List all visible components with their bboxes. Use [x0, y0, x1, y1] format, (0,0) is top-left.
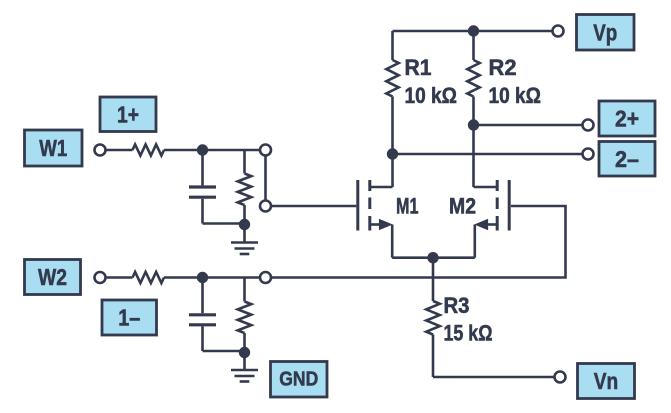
capacitor W2 RC: [189, 278, 216, 352]
label R2 value: [489, 55, 542, 108]
transistor M2: [474, 180, 510, 258]
node label W1: [25, 130, 83, 166]
junction tail: [427, 252, 438, 263]
terminal W1: [95, 145, 106, 156]
wire node 2-: [393, 153, 589, 156]
svg-text:2–: 2–: [615, 146, 639, 172]
svg-text:W2: W2: [38, 264, 67, 290]
junction W2 RC: [197, 272, 208, 283]
node label 2-: [599, 142, 655, 177]
capacitor W1 RC: [189, 150, 216, 224]
svg-text:R2: R2: [489, 55, 517, 80]
terminal Vp: [553, 26, 564, 37]
label R3 value: [444, 293, 493, 345]
terminal 2+: [583, 120, 594, 131]
wire W1 to 1+: [164, 149, 266, 152]
label R1 value: [405, 55, 458, 108]
wire top rail Vp: [393, 30, 559, 33]
svg-text:W1: W1: [39, 135, 67, 161]
terminal 1+: [260, 145, 271, 156]
node label 2+: [599, 101, 655, 136]
junction W1 RC ground: [239, 219, 250, 230]
node label Vn: [578, 364, 635, 399]
node label Vp: [577, 15, 635, 51]
wire Vn: [433, 376, 560, 379]
svg-text:10 kΩ: 10 kΩ: [489, 83, 542, 108]
node label 1+: [100, 97, 156, 132]
wire source bus: [392, 256, 475, 259]
junction 2-: [387, 148, 398, 159]
svg-text:R1: R1: [405, 55, 432, 80]
node label GND: [271, 362, 328, 398]
junction W1 RC: [197, 144, 208, 155]
ground W2 RC: [231, 353, 258, 382]
resistor R3: [426, 258, 440, 377]
terminal W2: [95, 272, 106, 283]
terminal M1 gate tap: [260, 201, 271, 212]
svg-text:10 kΩ: 10 kΩ: [405, 83, 458, 108]
svg-text:Vn: Vn: [594, 368, 619, 394]
svg-text:2+: 2+: [615, 106, 639, 132]
svg-text:GND: GND: [279, 369, 318, 391]
transistor M1: [358, 154, 393, 258]
svg-text:15 kΩ: 15 kΩ: [444, 320, 493, 345]
node label 1-: [102, 300, 157, 335]
wire R2 to M2 drain: [472, 125, 475, 187]
wire 1+ to gate tap: [264, 150, 267, 206]
ground W1 RC: [231, 225, 258, 255]
resistor W2 series: [133, 272, 165, 283]
resistor W1 RC shunt: [238, 150, 252, 224]
wire node 2+: [474, 124, 589, 127]
wire W1 input: [100, 149, 133, 152]
svg-text:M1: M1: [396, 194, 419, 219]
junction W2 RC ground: [239, 347, 250, 358]
terminal Vn: [555, 372, 566, 383]
terminal 2-: [583, 149, 594, 160]
wire W2 to M2 gate corner: [164, 206, 566, 278]
svg-text:1+: 1+: [117, 101, 139, 127]
terminal 1-: [260, 272, 271, 283]
svg-text:M2: M2: [449, 194, 476, 219]
junction 2+: [468, 119, 479, 130]
svg-text:1–: 1–: [118, 305, 140, 331]
resistor R2: [467, 31, 479, 125]
resistor R1: [386, 31, 398, 154]
svg-text:R3: R3: [444, 293, 470, 318]
wire W2 input: [100, 276, 133, 279]
svg-text:Vp: Vp: [593, 19, 617, 45]
wire W1 RC bottom: [203, 222, 245, 225]
wire M1 gate: [266, 205, 357, 208]
resistor W1 series: [133, 144, 165, 155]
junction top rail / R2: [468, 25, 479, 36]
resistor W2 RC shunt: [238, 278, 252, 352]
wire W2 RC bottom: [203, 350, 245, 353]
node label W2: [25, 260, 81, 295]
